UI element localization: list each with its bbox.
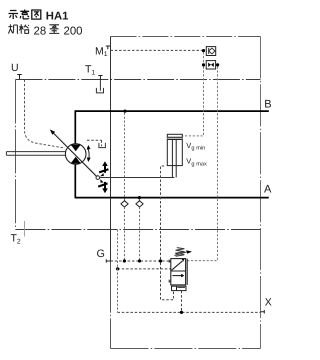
- valve orifice sub-box: [172, 286, 187, 290]
- pump flow triangle bottom: [71, 157, 81, 164]
- wire diamond2 to G row: [139, 207, 141, 260]
- enclosure boundary left: [15, 80, 17, 230]
- case line T2: [16, 229, 261, 231]
- wire valve bottom to X line dashed: [181, 291, 183, 311]
- node B branch: [123, 110, 126, 113]
- swivel arc arrow: [88, 147, 90, 159]
- node A branch: [138, 196, 141, 199]
- pressure control valve DR: [169, 259, 187, 285]
- char 规: [8, 24, 18, 33]
- case line U-T1: [16, 79, 261, 81]
- variable displacement arrow: [51, 131, 97, 177]
- node G row 3: [159, 259, 162, 262]
- svg-text:A: A: [264, 184, 272, 196]
- X pilot line dashed: [118, 311, 261, 313]
- node G row 1: [123, 259, 126, 262]
- wire diamond1 to G row: [124, 207, 126, 260]
- svg-text:G: G: [97, 248, 105, 260]
- feedback pivot: [96, 176, 100, 180]
- pilot line from U to pump (dashed): [24, 80, 63, 148]
- feedback lever to cylinder rod: [100, 177, 175, 179]
- svg-text:Vgmin: Vgmin: [186, 141, 205, 152]
- port T2: [11, 221, 25, 246]
- svg-text:T1: T1: [85, 64, 95, 77]
- gauge line M1 dashed: [111, 49, 202, 51]
- char 意: [20, 10, 29, 19]
- svg-text:U: U: [11, 62, 19, 74]
- char 示: [9, 11, 19, 20]
- tank symbol below T1: [96, 80, 103, 93]
- wire A to check diamond 2: [139, 199, 141, 201]
- svg-text:M1: M1: [95, 45, 108, 58]
- tank symbol near pump: [99, 143, 106, 148]
- enclosure boundary bottom: [111, 348, 261, 350]
- wire M1-T1 vertical solid: [110, 37, 112, 112]
- port G: [97, 248, 111, 263]
- node orifice left: [202, 63, 205, 66]
- svg-text:Vgmax: Vgmax: [186, 157, 207, 168]
- pump flow triangle top: [71, 145, 81, 152]
- check valve diamond 1: [121, 201, 128, 207]
- line A (thick): [75, 197, 269, 199]
- stroke limiter lower arrow: [98, 179, 108, 193]
- wire row2 down to X line: [117, 230, 119, 313]
- svg-text:28: 28: [34, 25, 47, 37]
- port M1: [95, 45, 110, 58]
- wire B-to-G vertical solid: [110, 111, 112, 263]
- orifice box V2: [206, 61, 215, 69]
- svg-text:HA1: HA1: [46, 11, 69, 23]
- check valve box V1: [206, 47, 215, 56]
- pump frame left edge upper: [74, 110, 76, 144]
- svg-text:200: 200: [64, 25, 83, 37]
- svg-text:X: X: [265, 296, 272, 308]
- case drain dashed to tank near pump: [87, 140, 102, 146]
- drive shaft: [6, 152, 65, 156]
- wire pilot to valve spring dashed: [187, 67, 217, 261]
- node orifice right: [216, 63, 219, 66]
- svg-text:T2: T2: [11, 233, 21, 246]
- pump frame left edge lower: [74, 164, 76, 199]
- wire valve drain dashed: [161, 263, 174, 300]
- enclosure boundary right: [260, 37, 262, 349]
- wire check-to-orifice dashed: [203, 52, 205, 63]
- line B (thick): [75, 110, 269, 112]
- spring adjust arrow: [174, 252, 187, 256]
- wire Vg-max control line dashed: [161, 166, 165, 259]
- port U: [11, 62, 22, 79]
- node row2: [116, 267, 119, 270]
- char 至: [49, 25, 59, 34]
- node M1-check: [202, 49, 205, 52]
- pump P1 circle: [65, 144, 86, 165]
- G row supply line dashed: [111, 260, 171, 262]
- check valve diamond 2: [136, 201, 143, 207]
- title text 示意图 HA1 (drawn strokes): [9, 10, 69, 23]
- stroke limiter upper arrow: [99, 161, 108, 176]
- control cylinder: [167, 134, 182, 177]
- char 图: [32, 10, 41, 19]
- node G row 2: [138, 259, 141, 262]
- row2 pilot line dashed: [118, 268, 171, 270]
- wire Vg-min control line dashed: [183, 67, 204, 136]
- subtitle 规格 28 至 200: [8, 24, 82, 37]
- wire B to check diamond 1: [124, 113, 126, 201]
- svg-text:B: B: [264, 99, 271, 111]
- port T1: [85, 64, 103, 80]
- char 格: [19, 24, 29, 33]
- valve spring: [175, 248, 184, 257]
- enclosure boundary lower-left: [110, 263, 112, 349]
- node X line: [180, 311, 183, 314]
- port X: [261, 296, 272, 313]
- enclosure boundary top: [111, 36, 261, 38]
